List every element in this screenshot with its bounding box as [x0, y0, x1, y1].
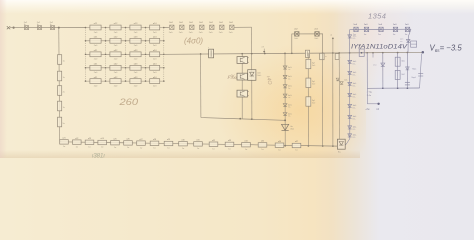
capacitor C1 — [405, 76, 416, 85]
resistor R51 grid — [90, 77, 101, 88]
svg-text:2σ0ᵥ: 2σ0ᵥ — [294, 38, 298, 40]
svg-text:2σᵥ: 2σᵥ — [288, 88, 291, 90]
svg-text:1ᴡ: 1ᴡ — [261, 149, 264, 151]
svg-text:2σ0: 2σ0 — [94, 59, 98, 61]
bus junction — [361, 52, 363, 54]
resistor R22 grid — [110, 37, 121, 48]
svg-text:2σ0: 2σ0 — [94, 32, 98, 34]
node A junction — [58, 27, 60, 29]
svg-text:1ĸ: 1ĸ — [24, 24, 26, 26]
svg-text:2σ0: 2σ0 — [153, 72, 157, 74]
fuse F1 on bus — [208, 47, 214, 58]
wire bridge — [292, 34, 323, 54]
svg-text:1ᴡ: 1ᴡ — [212, 148, 215, 150]
resistor RC9 chain — [164, 139, 173, 150]
zener Z6v4 — [400, 39, 410, 44]
svg-text:2σ2: 2σ2 — [199, 22, 204, 24]
pencil note 1380 — [92, 154, 105, 160]
svg-text:2σ2: 2σ2 — [314, 28, 318, 30]
stub node 22 — [331, 34, 334, 53]
grid row wires — [86, 28, 164, 82]
boxed diode DB2 — [337, 139, 345, 153]
bus junction — [291, 52, 293, 54]
diode D13 top chain — [199, 22, 204, 34]
zener ZR — [348, 82, 357, 87]
zener Z1 — [283, 66, 292, 71]
bus junction — [372, 52, 374, 54]
svg-text:ʀ23: ʀ23 — [88, 138, 91, 140]
handwriting part number — [351, 44, 408, 51]
svg-text:75σᴋ: 75σᴋ — [412, 69, 416, 71]
wire zener stack right — [349, 30, 351, 139]
svg-text:1ĸ: 1ĸ — [37, 24, 39, 26]
wire col x373 short — [372, 53, 374, 58]
resistor RR1 — [395, 57, 405, 66]
resistor RC15 chain — [258, 141, 267, 152]
input terminal J1 — [7, 26, 15, 29]
bus junction — [382, 52, 384, 54]
svg-text:1ᴡ: 1ᴡ — [76, 146, 79, 148]
svg-text:2σ0ᵥ: 2σ0ᵥ — [189, 32, 193, 34]
wire right row drop — [408, 29, 411, 52]
bus junction — [322, 52, 324, 54]
wire top right row — [350, 28, 411, 30]
wire col x367 — [366, 53, 368, 89]
svg-text:2σ0: 2σ0 — [153, 32, 157, 34]
diode D1 — [24, 22, 29, 29]
svg-text:2σ0ᵥ: 2σ0ᵥ — [209, 32, 213, 34]
corner to bottom chain — [60, 140, 62, 142]
svg-text:ʀ33: ʀ33 — [228, 140, 231, 142]
chain junction — [308, 145, 310, 147]
svg-text:1ᴡ: 1ᴡ — [295, 150, 298, 152]
svg-text:2ᴋ2: 2ᴋ2 — [401, 74, 405, 76]
svg-text:8.1ᵥ: 8.1ᵥ — [353, 74, 356, 76]
svg-text:8.1ᵥ: 8.1ᵥ — [353, 118, 356, 120]
svg-text:ʀ36: ʀ36 — [278, 141, 281, 143]
bus junction — [366, 52, 368, 54]
svg-text:2σ0: 2σ0 — [94, 85, 98, 87]
svg-text:1ĸ: 1ĸ — [63, 107, 65, 109]
resistor R43 grid — [130, 64, 141, 75]
chain junction — [322, 145, 324, 147]
bus junction — [332, 52, 334, 54]
resistor R12 grid — [110, 23, 121, 34]
wire lower bus — [201, 117, 285, 120]
lower right bus junction — [397, 87, 399, 89]
resistor RC5 chain — [111, 138, 120, 149]
wire probe stub — [367, 88, 380, 105]
contact K2 below bus — [335, 54, 341, 60]
wire col x332 — [332, 53, 334, 146]
zener ZR — [348, 115, 357, 120]
resistor R24 grid — [150, 37, 160, 48]
svg-text:3σ0: 3σ0 — [312, 102, 315, 104]
svg-text:2σ2: 2σ2 — [179, 22, 184, 24]
resistor R53 grid — [130, 77, 141, 88]
diode D11 top chain — [179, 22, 184, 34]
svg-text:2σ0: 2σ0 — [114, 59, 118, 61]
svg-text:1ᴡ: 1ᴡ — [63, 146, 66, 148]
svg-text:1354: 1354 — [368, 12, 386, 21]
svg-text:5ĸ: 5ĸ — [63, 123, 65, 125]
power diode DP1 — [282, 124, 295, 130]
label 2w gnd — [365, 108, 380, 111]
svg-text:2σ0ᵥ: 2σ0ᵥ — [314, 38, 318, 40]
zener ZR — [348, 104, 357, 109]
svg-text:2σ0: 2σ0 — [114, 45, 118, 47]
svg-text:1ᴡ: 1ᴡ — [101, 147, 104, 149]
diode DR top row — [393, 24, 398, 36]
svg-text:ʀ24: ʀ24 — [101, 138, 104, 140]
svg-text:8.1ᵥ: 8.1ᵥ — [353, 107, 356, 109]
svg-text:1ĸ: 1ĸ — [63, 77, 65, 79]
svg-text:2σ0: 2σ0 — [114, 85, 118, 87]
svg-text:2σ2: 2σ2 — [209, 22, 214, 24]
resistor RC16 chain — [275, 141, 284, 152]
zener Z2 — [283, 75, 292, 80]
label Z-10k — [367, 91, 373, 97]
lower right bus junction — [382, 87, 384, 89]
svg-text:ι4O: ι4O — [265, 76, 273, 86]
resistor RL5 — [58, 117, 65, 127]
pencil note 1354 — [368, 12, 386, 21]
wire col x407 — [406, 53, 408, 89]
bus junction — [200, 53, 202, 55]
svg-text:2σ0: 2σ0 — [94, 72, 98, 74]
svg-text:1σ0: 1σ0 — [353, 24, 357, 26]
svg-text:8.1ᵥ: 8.1ᵥ — [353, 96, 356, 98]
diode DR top row — [405, 24, 410, 36]
wire left divider — [58, 28, 61, 140]
svg-text:ι381ι: ι381ι — [92, 154, 105, 159]
diode D10 top chain — [169, 22, 174, 34]
svg-text:2σ0: 2σ0 — [134, 32, 138, 34]
svg-text:2σ0ᵥ: 2σ0ᵥ — [257, 75, 261, 77]
chain junction — [284, 145, 286, 147]
zener Z3 — [283, 85, 292, 90]
handwriting Vgs — [430, 43, 463, 52]
svg-text:1ᴡ: 1ᴡ — [114, 147, 117, 149]
svg-text:1ĸ: 1ĸ — [63, 61, 65, 63]
resistor RC6 chain — [124, 139, 133, 150]
svg-text:1ᴡ: 1ᴡ — [197, 148, 200, 150]
zener Z4v4 — [373, 63, 385, 67]
pencil note 400 — [184, 37, 203, 46]
resistor RC10 chain — [179, 139, 188, 150]
transistor Q3 — [237, 90, 249, 97]
resistor RM3 — [306, 97, 315, 106]
pencil note 140 — [265, 76, 273, 86]
resistor RC3 chain — [85, 138, 94, 149]
pencil note 8pc — [227, 74, 237, 81]
wire col x339 — [338, 53, 340, 143]
resistor R52 grid — [110, 77, 121, 88]
svg-text:ʀ25: ʀ25 — [113, 138, 116, 140]
zener ZR — [348, 134, 357, 139]
resistor RC12 chain — [209, 140, 218, 151]
svg-text:45ᴡ: 45ᴡ — [290, 129, 294, 131]
zener Z6 — [283, 113, 292, 118]
boxed diode DB1 — [248, 70, 262, 81]
resistor R34 grid — [150, 50, 160, 61]
svg-text:1ᴡ: 1ᴡ — [228, 149, 231, 151]
resistor RM2 — [306, 78, 315, 87]
svg-text:1σᵥ: 1σᵥ — [405, 34, 408, 36]
svg-text:260: 260 — [118, 97, 138, 108]
bus junction — [338, 52, 340, 54]
resistor RC17 chain — [292, 141, 301, 152]
diode D12 top chain — [189, 22, 194, 34]
svg-text:8.1ᵥ: 8.1ᵥ — [353, 129, 356, 131]
svg-text:1ᴡ: 1ᴡ — [88, 147, 91, 149]
svg-text:ᴋ₁: ᴋ₁ — [325, 56, 327, 58]
resistor RC11 chain — [194, 140, 203, 151]
contact K1 below bus — [320, 53, 328, 59]
svg-text:2σ0ᵥ: 2σ0ᵥ — [219, 32, 223, 34]
component on bus — [359, 49, 364, 56]
resistor RC8 chain — [150, 139, 159, 150]
zener Z5 — [283, 104, 292, 109]
svg-text:ꜰ‰: ꜰ‰ — [227, 74, 237, 81]
symbol box after text — [411, 41, 417, 47]
svg-text:2σ0ᵥ: 2σ0ᵥ — [229, 32, 233, 34]
svg-text:ʀ21: ʀ21 — [62, 138, 65, 140]
label 40-45w small — [0, 0, 1, 1]
bus junction — [349, 52, 351, 54]
transistor Q2 — [237, 73, 249, 80]
zener ZR — [348, 126, 357, 131]
resistor RL1 — [58, 55, 65, 65]
svg-text:2σ0: 2σ0 — [134, 59, 138, 61]
wire main bus — [164, 52, 423, 54]
svg-text:3σᴋ: 3σᴋ — [401, 61, 404, 63]
svg-text:ʀ27: ʀ27 — [139, 139, 142, 141]
svg-text:2ĸ: 2ĸ — [63, 92, 65, 94]
pencil note 260 — [118, 97, 138, 108]
svg-text:2.4ᴋ: 2.4ᴋ — [367, 95, 372, 97]
bus junction — [264, 53, 266, 55]
svg-text:1σ0: 1σ0 — [393, 24, 397, 26]
resistor RC1 chain — [60, 138, 69, 149]
svg-text:2σ0ᵥ: 2σ0ᵥ — [179, 32, 183, 34]
svg-text:2σ0ᵥ: 2σ0ᵥ — [169, 32, 173, 34]
resistor R14 grid — [150, 23, 160, 34]
svg-text:1ᴡ: 1ᴡ — [167, 148, 170, 150]
wire col Q down — [241, 54, 243, 119]
svg-text:ʀ28: ʀ28 — [153, 139, 156, 141]
svg-text:⌐2ᴡ: ⌐2ᴡ — [365, 108, 370, 111]
svg-text:1σᵥ: 1σᵥ — [364, 34, 367, 36]
wire input feed — [10, 27, 86, 29]
diode pair mid — [336, 78, 348, 84]
svg-text:2σᵥ: 2σᵥ — [288, 78, 291, 80]
svg-text:ʀ29: ʀ29 — [167, 139, 170, 141]
resistor R31 grid — [90, 50, 101, 61]
svg-text:ʀ30: ʀ30 — [181, 139, 184, 141]
resistor R33 grid — [130, 50, 141, 61]
svg-text:1σ0: 1σ0 — [405, 24, 409, 26]
svg-text:1σ0ᵥ: 1σ0ᵥ — [344, 80, 348, 82]
zener ZR — [348, 35, 357, 40]
svg-text:ʀ26: ʀ26 — [126, 139, 129, 141]
svg-text:1σ0: 1σ0 — [364, 24, 368, 26]
resistor R13 grid — [130, 23, 141, 34]
resistor R42 grid — [110, 64, 121, 75]
svg-text:1ᴡ: 1ᴡ — [245, 149, 248, 151]
svg-text:1ᴡ: 1ᴡ — [182, 148, 185, 150]
svg-text:ғ: ғ — [208, 47, 209, 49]
svg-text:2σᵥ: 2σᵥ — [288, 97, 291, 99]
wire col x308 — [307, 53, 309, 146]
svg-text:8.1ᵥ: 8.1ᵥ — [353, 137, 356, 139]
svg-text:ʀ22: ʀ22 — [75, 138, 78, 140]
diode D15 top chain — [219, 22, 224, 34]
svg-text:2σ0: 2σ0 — [114, 72, 118, 74]
wire grid row1 to chain — [164, 26, 169, 28]
wire col DB down — [251, 54, 253, 120]
wire col x397 — [397, 53, 399, 89]
svg-text:1ᴡ: 1ᴡ — [127, 147, 130, 149]
zener ZR — [348, 60, 357, 65]
svg-text:2σ2: 2σ2 — [294, 28, 298, 30]
resistor RC2 chain — [73, 138, 82, 149]
svg-text:1σ0: 1σ0 — [378, 24, 382, 26]
wire top chain to corner — [234, 26, 251, 28]
svg-text:2σ2: 2σ2 — [169, 22, 174, 24]
svg-text:(4σ0): (4σ0) — [184, 37, 203, 46]
resistor R23 grid — [130, 37, 141, 48]
svg-text:8σᵥ: 8σᵥ — [338, 151, 341, 153]
lower bus junction — [251, 118, 253, 120]
diode DR top row — [353, 24, 358, 36]
wire corner down to bus — [251, 27, 253, 53]
svg-text:2σ0ᵥ: 2σ0ᵥ — [199, 32, 203, 34]
diode DR top row — [378, 24, 383, 36]
resistor RL3 — [58, 86, 65, 96]
svg-text:1ᴡ: 1ᴡ — [140, 147, 143, 149]
resistor R54 grid — [150, 77, 160, 88]
svg-text:ᴅ4: ᴅ4 — [376, 108, 379, 111]
diode D2 — [37, 22, 42, 29]
node lower bus end — [284, 119, 286, 121]
svg-text:2σ0: 2σ0 — [153, 45, 157, 47]
resistor RC14 chain — [242, 140, 251, 151]
svg-text:ʀ32: ʀ32 — [212, 140, 215, 142]
bus junction — [251, 53, 253, 55]
svg-text:1σᵥ: 1σᵥ — [378, 34, 381, 36]
resistor RC4 chain — [98, 138, 107, 149]
svg-text:2σ0: 2σ0 — [134, 85, 138, 87]
wire lower right bus — [367, 87, 419, 89]
svg-text:2σ2: 2σ2 — [189, 22, 194, 24]
label Q2 values — [251, 74, 257, 79]
node G7 stub — [262, 47, 266, 53]
bus junction — [284, 53, 286, 55]
svg-text:1ᴡ: 1ᴡ — [153, 148, 156, 150]
resistor R41 grid — [90, 64, 101, 75]
svg-text:2σμꜰ: 2σμꜰ — [411, 76, 415, 79]
breaker B1 on bus — [305, 50, 309, 57]
svg-text:2σᵥ: 2σᵥ — [288, 116, 291, 118]
diode D14 top chain — [209, 22, 214, 34]
svg-text:1ᴡ: 1ᴡ — [278, 149, 281, 151]
grid vertical rails — [86, 28, 164, 82]
svg-text:ᵣ: ᵣ — [340, 56, 341, 58]
svg-text:2σ0: 2σ0 — [153, 59, 157, 61]
svg-text:²²: ²² — [331, 34, 333, 37]
wire col x382 — [382, 53, 384, 88]
svg-text:8.1ᵥ: 8.1ᵥ — [353, 85, 356, 87]
diode D3 — [50, 22, 55, 29]
capacitor C2 — [418, 74, 423, 77]
svg-text:1σᵥ: 1σᵥ — [393, 34, 396, 36]
svg-text:ʀ37: ʀ37 — [295, 141, 298, 143]
wire col x200 down — [200, 54, 202, 117]
svg-text:8.1ᵥ: 8.1ᵥ — [353, 63, 356, 65]
bus junction — [397, 52, 399, 54]
resistor RL2 — [58, 71, 65, 81]
diode DR top row — [364, 24, 369, 36]
resistor RC13 chain — [225, 140, 234, 151]
diode D16 top chain — [229, 22, 234, 34]
svg-text:2σ2: 2σ2 — [219, 22, 224, 24]
svg-text:ʀ34: ʀ34 — [244, 140, 247, 142]
zener small 750 — [406, 67, 417, 71]
svg-text:2σ0: 2σ0 — [94, 45, 98, 47]
svg-text:8.1ᵥ: 8.1ᵥ — [353, 38, 356, 40]
svg-text:2σᵥ: 2σᵥ — [288, 107, 291, 109]
resistor R32 grid — [110, 50, 121, 61]
svg-text:IYfA1N11oD14V: IYfA1N11oD14V — [351, 44, 408, 51]
zener Z4 — [283, 94, 292, 99]
bus junction — [307, 52, 309, 54]
resistor R11 grid — [90, 23, 101, 34]
resistor R44 grid — [150, 64, 160, 75]
svg-text:1ĸ: 1ĸ — [50, 24, 52, 26]
wire col x322 — [322, 53, 324, 146]
lower right bus junction — [407, 87, 409, 89]
diode bridge D — [294, 28, 299, 40]
transistor Q1 — [237, 57, 249, 64]
resistor RC7 chain — [137, 139, 146, 150]
wire right bus corner up — [420, 54, 422, 88]
svg-text:ᶻ⁻¹⁰ᴋ: ᶻ⁻¹⁰ᴋ — [367, 91, 373, 94]
wire col zener stack — [284, 53, 286, 145]
zener ZR — [348, 93, 357, 98]
resistor RR2 — [395, 70, 405, 79]
wire bottom chain — [60, 142, 337, 146]
resistor RL4 — [58, 101, 65, 111]
diode bridge D — [314, 28, 319, 40]
svg-text:2σ0: 2σ0 — [114, 32, 118, 34]
svg-text:2σ0: 2σ0 — [134, 45, 138, 47]
lower bus junction — [239, 118, 241, 120]
svg-text:ʀ35: ʀ35 — [261, 141, 264, 143]
svg-text:ʀ31: ʀ31 — [196, 140, 199, 142]
svg-text:3σ0: 3σ0 — [312, 84, 315, 86]
resistor RM1 — [306, 59, 315, 68]
svg-text:2σ2: 2σ2 — [229, 22, 234, 24]
bus junction — [241, 53, 243, 55]
wire stack to boxed diode — [345, 139, 350, 146]
resistor R21 grid — [90, 37, 101, 48]
bus junction — [407, 52, 409, 54]
svg-text:2σᵥ: 2σᵥ — [288, 69, 291, 71]
bus end node Vgs — [422, 51, 425, 54]
svg-text:ɢ⁊: ɢ⁊ — [262, 47, 264, 49]
svg-text:2σ0: 2σ0 — [134, 72, 138, 74]
